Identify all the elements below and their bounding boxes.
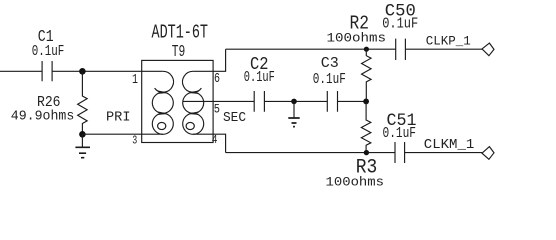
svg-text:SEC: SEC — [223, 111, 246, 126]
transformer T9 primary loop 1 — [155, 71, 174, 92]
svg-text:PRI: PRI — [106, 111, 131, 126]
transformer T9 primary phase dot — [158, 122, 166, 129]
transformer T9 primary loop 3 — [152, 113, 173, 134]
svg-text:5: 5 — [214, 102, 220, 117]
wire pin5 row to C2 — [213, 100, 254, 102]
transformer T9 primary loop 2 — [152, 92, 173, 113]
transformer T9 box — [142, 60, 213, 142]
resistor R3 — [361, 101, 371, 152]
ground GND2 — [293, 101, 295, 118]
svg-text:4: 4 — [212, 134, 218, 147]
capacitor C2 — [254, 91, 264, 112]
transformer T9 secondary loop 3 — [183, 113, 204, 134]
node junction top of R2 — [364, 47, 369, 52]
svg-text:100ohms: 100ohms — [327, 31, 387, 46]
svg-text:CLKP_1: CLKP_1 — [426, 34, 471, 49]
wire junction B to transformer pin 3 — [82, 133, 141, 135]
svg-text:0.1uF: 0.1uF — [383, 126, 417, 142]
wire C51 to CLKM_1 connector — [405, 152, 482, 154]
svg-text:CLKM_1: CLKM_1 — [424, 138, 475, 153]
transformer T9 primary bottom lead pin3 — [142, 133, 163, 135]
svg-text:6: 6 — [214, 72, 220, 87]
wire pin4 to bottom rail — [213, 134, 226, 152]
svg-text:49.9ohms: 49.9ohms — [11, 108, 75, 124]
svg-text:0.1uF: 0.1uF — [313, 70, 346, 88]
capacitor C3 — [327, 91, 337, 112]
ground GND1 — [81, 134, 83, 147]
transformer T9 secondary loop 1 — [183, 71, 202, 92]
resistor R26 — [78, 71, 88, 134]
svg-text:0.1uF: 0.1uF — [244, 68, 275, 86]
transformer T9 secondary cusp 1 — [190, 91, 199, 93]
transformer T9 primary cusp 2 — [158, 112, 167, 114]
resistor R2 — [362, 49, 372, 101]
off-page connector CLKP_1 diamond — [482, 43, 494, 56]
wire input left — [0, 70, 42, 72]
capacitor C51 — [395, 142, 405, 163]
svg-text:T9: T9 — [172, 43, 186, 61]
wire C50 to CLKP_1 connector — [405, 48, 482, 50]
transformer T9 center tap lead pin5 — [183, 100, 213, 102]
svg-text:0.1uF: 0.1uF — [32, 44, 65, 60]
node junction bottom of R3 — [364, 150, 369, 155]
off-page connector CLKM_1 diamond — [482, 147, 494, 160]
node junction between R2 and R3 — [363, 99, 369, 105]
node junction A top of R26 — [79, 68, 86, 75]
svg-text:0.1uF: 0.1uF — [382, 14, 418, 32]
wire bottom rail — [226, 152, 395, 154]
transformer T9 secondary loop 2 — [183, 92, 204, 113]
svg-text:ADT1-6T: ADT1-6T — [152, 21, 209, 43]
wire top rail — [226, 48, 396, 50]
wire pin6 to top rail — [213, 49, 226, 71]
wire C3 to mid junction — [338, 100, 367, 102]
capacitor C50 — [396, 39, 406, 60]
transformer T9 secondary cusp 2 — [190, 112, 199, 114]
capacitor C1 — [42, 61, 52, 81]
node junction B bottom of R26 — [79, 131, 86, 138]
wire C2 to C3 — [264, 100, 327, 102]
svg-text:100ohms: 100ohms — [326, 175, 385, 190]
wire C1 to transformer pin 1 — [52, 70, 142, 72]
node junction middle ground — [291, 99, 297, 105]
transformer T9 secondary top lead pin6 — [193, 70, 213, 72]
transformer T9 primary winding lead pin1 — [142, 70, 163, 72]
transformer T9 secondary phase dot — [186, 122, 194, 129]
svg-text:1: 1 — [132, 73, 138, 88]
transformer T9 secondary bottom lead pin4 — [193, 133, 213, 135]
transformer T9 primary cusp 1 — [158, 91, 167, 93]
svg-text:3: 3 — [132, 134, 137, 148]
